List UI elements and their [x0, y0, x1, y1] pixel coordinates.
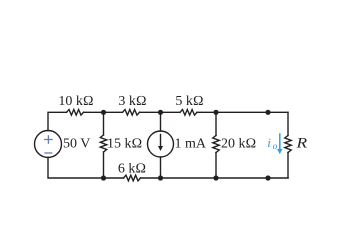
svg-text:5 kΩ: 5 kΩ: [175, 94, 203, 109]
svg-text:R: R: [295, 136, 307, 152]
svg-text:6 kΩ: 6 kΩ: [118, 161, 146, 176]
svg-text:i: i: [267, 135, 271, 150]
svg-text:o: o: [273, 142, 278, 152]
svg-text:10 kΩ: 10 kΩ: [58, 94, 93, 109]
svg-text:3 kΩ: 3 kΩ: [118, 94, 146, 109]
svg-text:1 mA: 1 mA: [175, 137, 207, 152]
svg-text:15 kΩ: 15 kΩ: [107, 137, 142, 152]
svg-text:50 V: 50 V: [63, 137, 90, 152]
svg-text:20 kΩ: 20 kΩ: [221, 137, 256, 152]
